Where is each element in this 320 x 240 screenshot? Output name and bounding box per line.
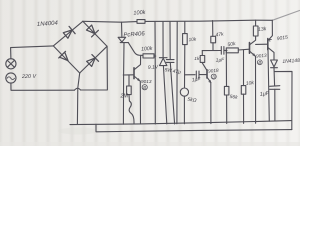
AC source 220V: [6, 73, 16, 83]
wire node V1: [154, 22, 156, 124]
wire diode to cap: [273, 68, 276, 86]
wire hop over crossing: [74, 88, 80, 90]
svg-text:47k: 47k: [215, 31, 224, 38]
capacitor C2 1uF: [196, 71, 199, 78]
wire cap to rail A: [274, 89, 276, 121]
bridge arm lower-right wire: [80, 46, 107, 73]
svg-text:9013: 9013: [141, 79, 152, 84]
svg-text:100k: 100k: [133, 10, 147, 17]
svg-text:220 V: 220 V: [21, 74, 38, 80]
wire gate resistor to node: [154, 55, 156, 57]
svg-text:5kΩ: 5kΩ: [187, 97, 197, 104]
resistor R 10k base: [241, 86, 246, 95]
svg-text:100k: 100k: [141, 46, 153, 53]
pin mark circled D: [211, 74, 216, 79]
wire faint top-right: [272, 11, 299, 21]
wire collector node: [202, 49, 227, 51]
resistor R 10k base wire: [243, 50, 245, 124]
resistor R 47k: [211, 36, 216, 43]
capacitor C1: [166, 60, 174, 63]
wire squiggle to rail: [129, 95, 134, 124]
microphone MIC: [180, 88, 188, 96]
svg-text:9013: 9013: [256, 53, 267, 59]
wire left-top: [11, 46, 54, 59]
svg-text:9.1V: 9.1V: [148, 64, 159, 71]
diode D4: [86, 55, 99, 68]
transistor Q4 base wire: [123, 74, 134, 76]
svg-text:B: B: [258, 60, 261, 65]
wire AC to bridge right corner: [81, 46, 108, 90]
resistor R 56k wire: [225, 50, 227, 123]
capacitor C1 wire: [170, 22, 175, 124]
resistor R 56k: [224, 86, 229, 95]
svg-text:B: B: [143, 85, 146, 90]
capacitor C3 1uF: [221, 47, 224, 55]
svg-text:1μF: 1μF: [192, 77, 202, 84]
ground rail A: [70, 121, 292, 125]
svg-text:56k: 56k: [229, 94, 238, 101]
pin mark circled B: [142, 85, 147, 90]
resistor R 13k: [253, 26, 258, 36]
zener diode 9.1V wire: [163, 22, 167, 124]
bridge arm upper-left wire: [53, 21, 83, 46]
wire bridge bottom to ground rail: [77, 73, 79, 124]
transistor Q4 9013: [133, 68, 135, 79]
bridge arm upper-right wire: [83, 21, 107, 46]
svg-text:PcR406: PcR406: [123, 31, 145, 39]
ground rail B: [96, 124, 292, 132]
diode D2: [86, 24, 99, 37]
svg-text:1k: 1k: [194, 56, 200, 62]
svg-text:9015: 9015: [276, 35, 288, 43]
resistor R 47k wire: [212, 21, 214, 51]
wire Q2 collector to Q3 base: [256, 43, 268, 45]
wire SCR gate: [128, 42, 143, 55]
svg-text:9018: 9018: [208, 68, 219, 74]
resistor R 50k: [226, 48, 238, 53]
resistor R1k col wire: [202, 51, 207, 71]
wire 50k to Q2 base: [238, 48, 249, 51]
svg-text:1μF: 1μF: [216, 57, 226, 64]
svg-text:10k: 10k: [246, 80, 255, 87]
wire right frame: [275, 71, 292, 129]
diode D3: [59, 51, 72, 64]
svg-text:10k: 10k: [188, 36, 197, 42]
transistor Q3 9015: [267, 39, 269, 50]
diode D5 1N4148: [271, 60, 278, 68]
svg-text:13k: 13k: [258, 26, 267, 33]
wire Q3 collector to rail: [268, 50, 269, 122]
transistor Q1 9018: [206, 70, 208, 78]
zener diode 9.1V: [159, 58, 167, 66]
pin mark circled B2: [257, 60, 262, 65]
lamp L1: [6, 59, 16, 69]
capacitor C4 1uF: [270, 86, 280, 90]
diode D1: [63, 26, 76, 39]
resistor R-top 100k: [137, 20, 145, 24]
wire mic branch: [183, 45, 185, 124]
resistor R1k col: [200, 56, 205, 63]
wire top rail: [83, 20, 272, 22]
resistor R 2M: [128, 75, 130, 86]
svg-text:1N4004: 1N4004: [37, 20, 59, 27]
paper shading: [0, 128, 300, 147]
thyristor SCR: [118, 37, 128, 42]
wire SCR cathode down: [122, 43, 125, 124]
resistor R-gate 100k: [143, 54, 154, 58]
resistor R 10k mic wire: [184, 22, 186, 34]
wire left-bottom: [11, 83, 75, 90]
thyristor SCR anode wire: [121, 22, 123, 37]
svg-text:D: D: [212, 74, 215, 79]
transistor Q2 9013: [249, 43, 251, 54]
wire node V4: [176, 22, 178, 124]
svg-text:50k: 50k: [227, 41, 236, 48]
wire mic to coupling cap: [185, 74, 207, 76]
bridge arm lower-left wire: [53, 46, 79, 73]
svg-text:2M: 2M: [120, 94, 129, 100]
svg-text:1N4148: 1N4148: [282, 58, 300, 65]
resistor R 10k mic: [183, 34, 188, 45]
